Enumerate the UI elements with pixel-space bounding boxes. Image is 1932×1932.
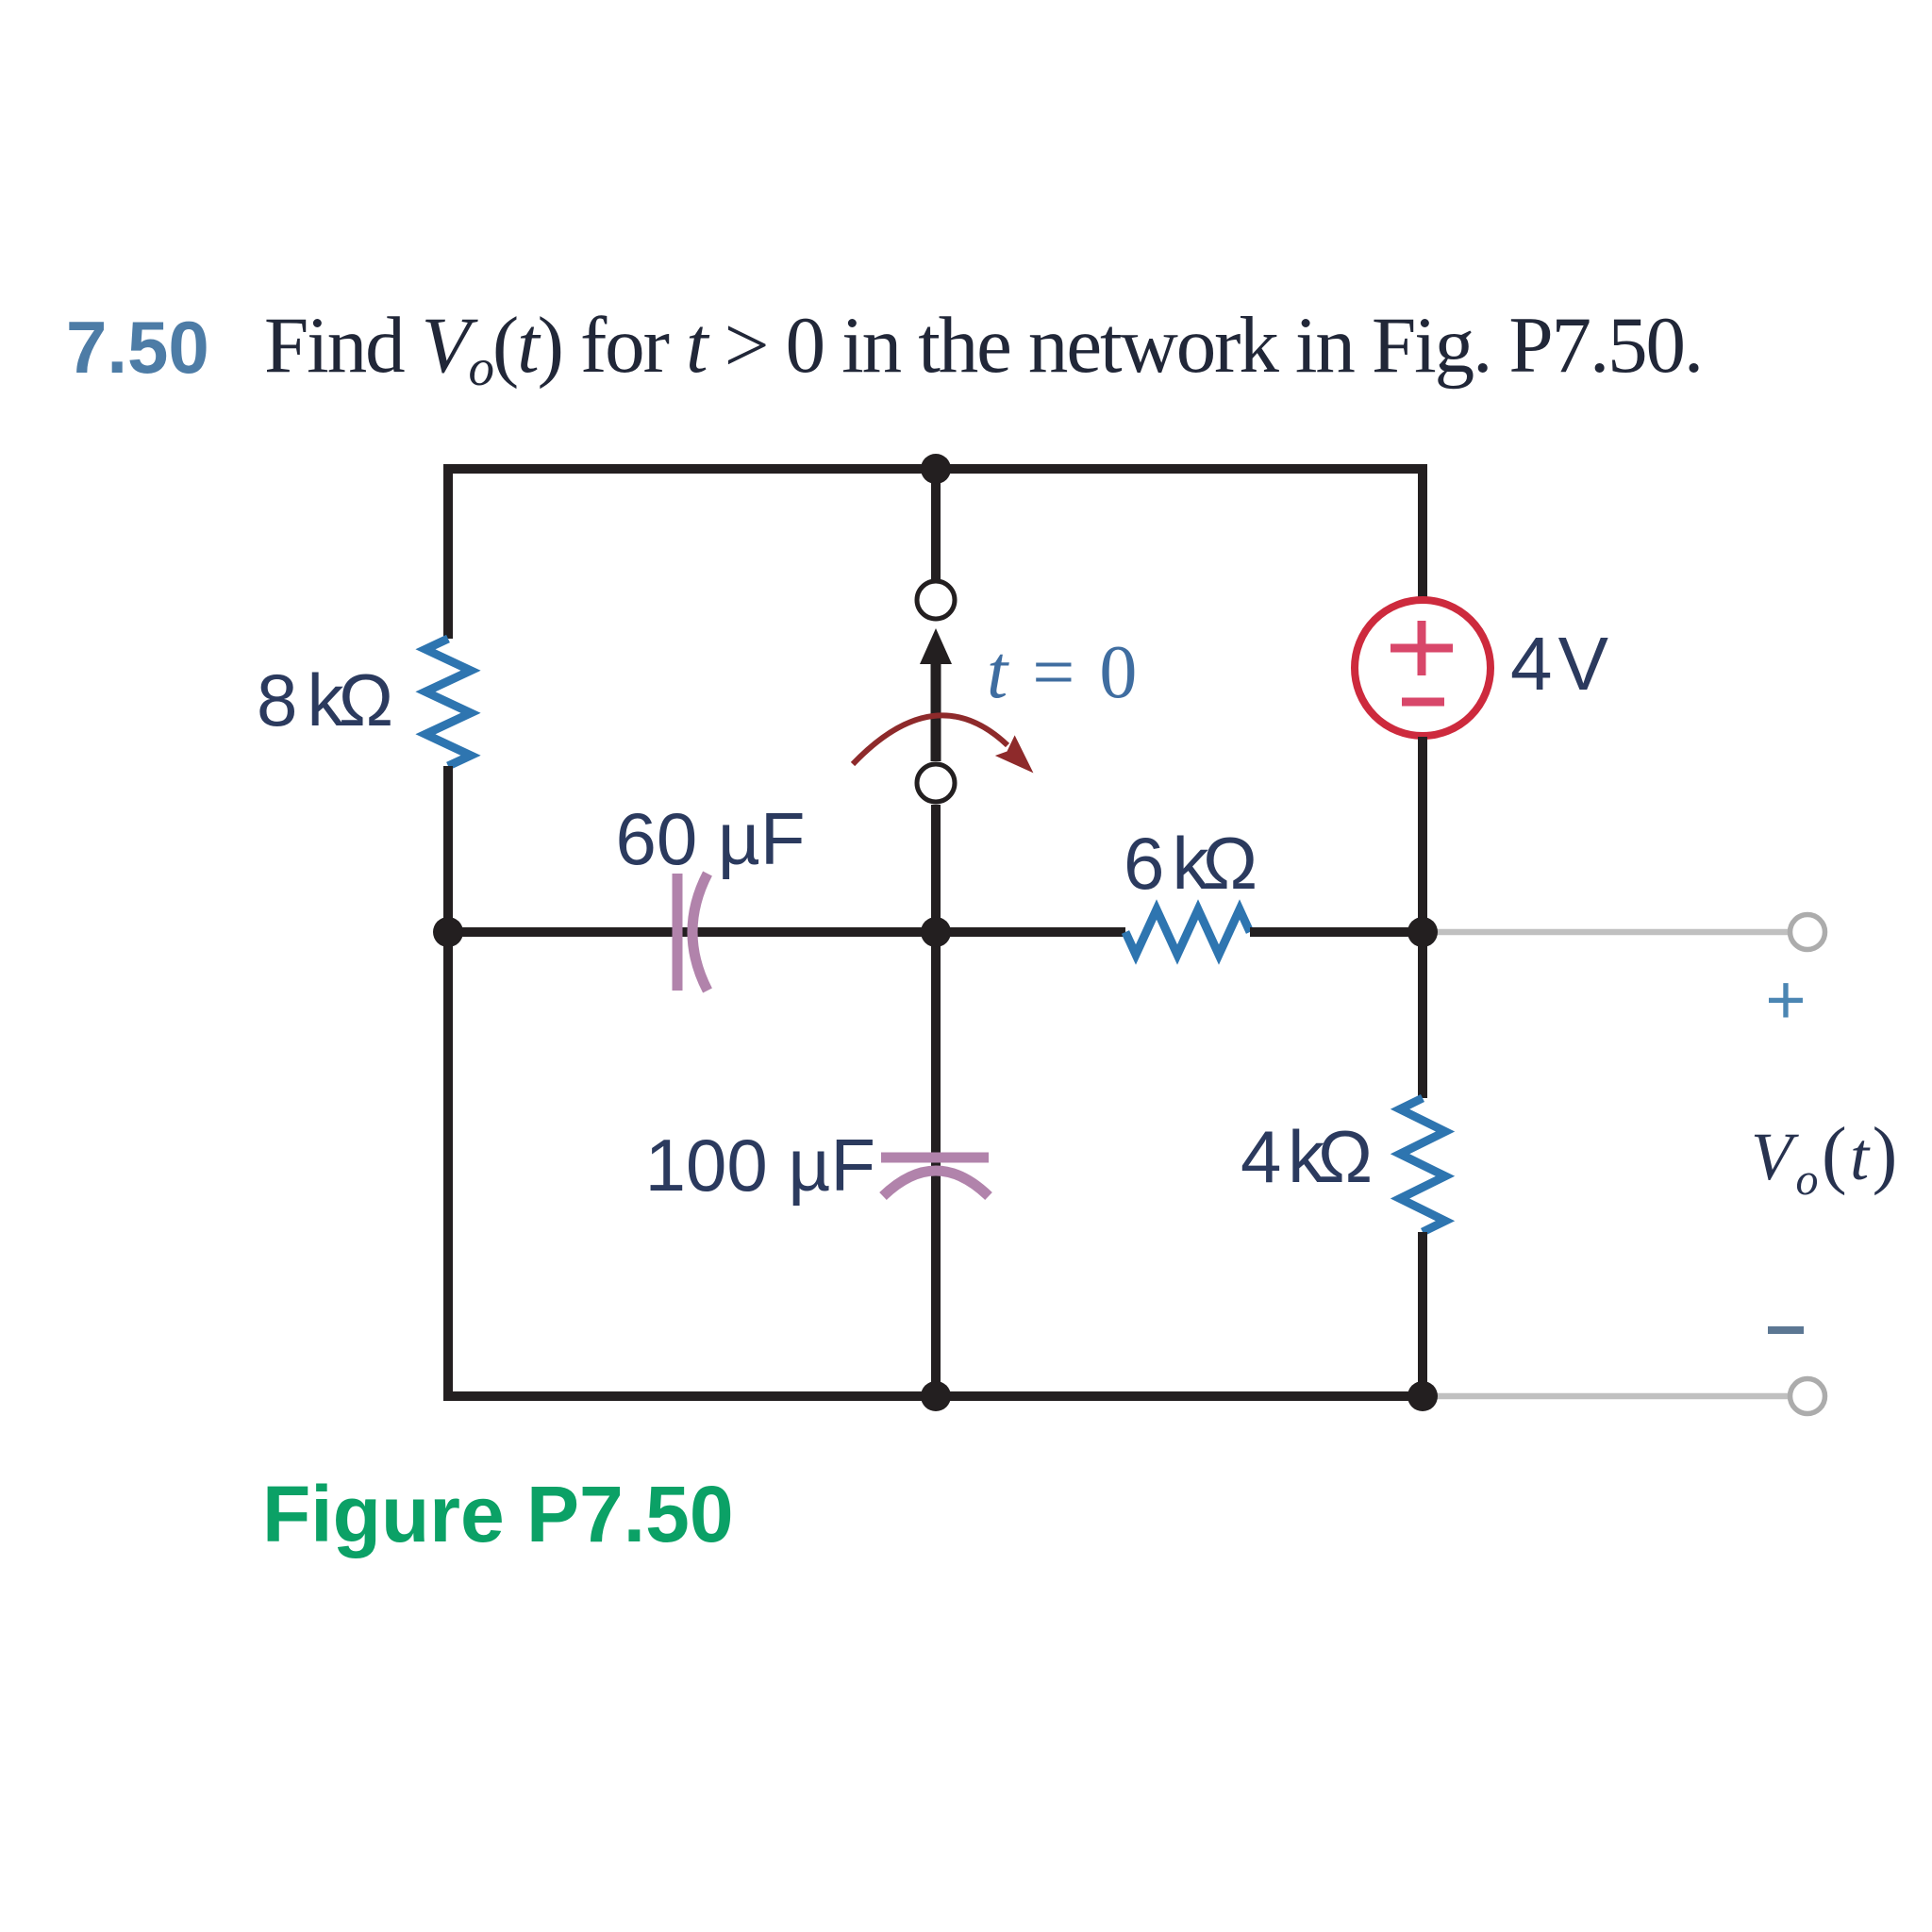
terminal top bbox=[1790, 915, 1825, 950]
capacitor 60uF plate curved bbox=[692, 874, 708, 991]
capacitor 100uF plate curved bbox=[883, 1171, 989, 1196]
wire middle right segment bbox=[1250, 927, 1423, 937]
terminal bottom bbox=[1790, 1379, 1825, 1414]
svg-text:100 µF: 100 µF bbox=[645, 1124, 875, 1207]
node bottom center bbox=[921, 1381, 951, 1411]
resistor 8k bbox=[425, 639, 471, 766]
source 4V circle bbox=[1355, 600, 1491, 736]
node bottom right bbox=[1407, 1381, 1438, 1411]
svg-text:Vo(t): Vo(t) bbox=[1751, 1113, 1901, 1205]
svg-text:4 kΩ: 4 kΩ bbox=[1241, 1115, 1373, 1198]
svg-text:+: + bbox=[1765, 960, 1806, 1039]
switch arrow head bbox=[920, 628, 952, 664]
node middle center bbox=[921, 917, 951, 947]
wire middle left segment bbox=[448, 927, 1125, 937]
wire right bottom bbox=[1418, 1232, 1427, 1396]
svg-text:Find Vo(t) for t > 0 in the ne: Find Vo(t) for t > 0 in the network in F… bbox=[264, 301, 1702, 396]
resistor 4k bbox=[1400, 1098, 1445, 1232]
svg-text:4 V: 4 V bbox=[1510, 622, 1609, 706]
node middle left bbox=[433, 917, 463, 947]
wire right middle bbox=[1418, 737, 1427, 1098]
svg-text:Figure P7.50: Figure P7.50 bbox=[262, 1470, 734, 1558]
capacitor 60uF plate flat bbox=[673, 874, 683, 991]
wire output middle gray bbox=[1423, 929, 1790, 936]
source minus bbox=[1402, 698, 1444, 707]
node top center bbox=[921, 454, 951, 484]
wire bottom bbox=[443, 1391, 1423, 1401]
resistor 6k bbox=[1125, 909, 1250, 955]
svg-text:7.50: 7.50 bbox=[66, 306, 209, 389]
wire left upper bbox=[443, 464, 453, 639]
wire right top bbox=[1418, 464, 1427, 598]
wire output bottom gray bbox=[1423, 1393, 1790, 1400]
switch arm wire bbox=[931, 660, 941, 761]
switch action arc bbox=[853, 715, 1008, 764]
svg-text:6 kΩ: 6 kΩ bbox=[1124, 822, 1257, 905]
switch contact lower bbox=[917, 764, 955, 802]
svg-text:8 kΩ: 8 kΩ bbox=[257, 658, 393, 741]
svg-text:60 µF: 60 µF bbox=[615, 797, 805, 880]
title problem 7.50 bbox=[66, 301, 1702, 396]
node middle right bbox=[1407, 917, 1438, 947]
wire left lower bbox=[443, 766, 453, 1401]
wire top bbox=[448, 464, 1423, 474]
label minus output bbox=[1768, 1326, 1804, 1334]
wire switch stub top bbox=[931, 469, 941, 579]
source plus bbox=[1391, 621, 1453, 675]
capacitor 100uF plate flat bbox=[881, 1153, 989, 1163]
svg-text:t = 0: t = 0 bbox=[987, 631, 1140, 714]
wire center below switch bbox=[931, 805, 941, 1396]
switch arc arrowhead bbox=[995, 735, 1043, 783]
switch contact upper bbox=[917, 581, 955, 619]
